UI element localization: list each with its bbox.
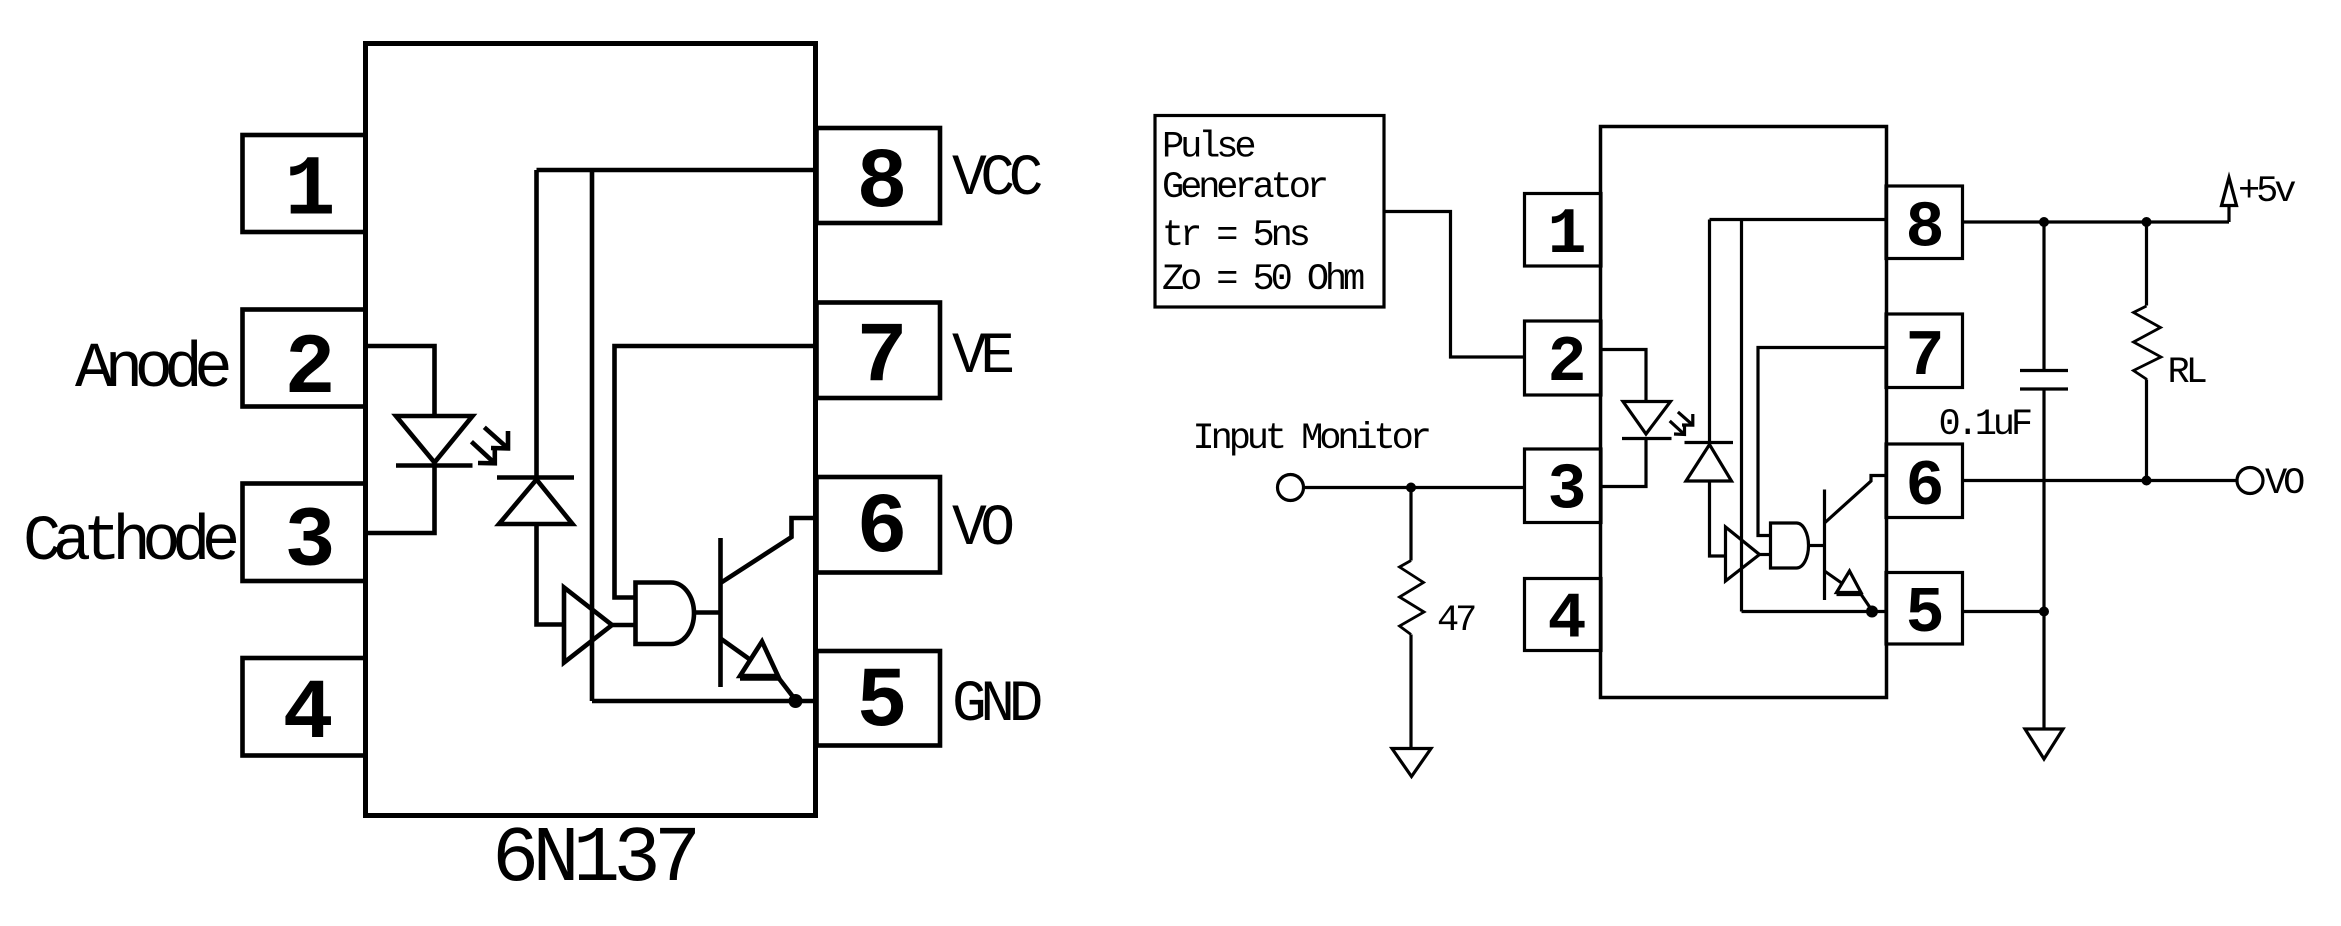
svg-text:RL: RL <box>2168 352 2206 394</box>
svg-text:2: 2 <box>1547 326 1586 400</box>
svg-text:Pulse: Pulse <box>1162 127 1254 169</box>
svg-text:Input Monitor: Input Monitor <box>1193 418 1429 460</box>
svg-text:tr = 5ns: tr = 5ns <box>1162 215 1309 257</box>
svg-text:5: 5 <box>856 654 907 751</box>
svg-text:6N137: 6N137 <box>492 815 695 904</box>
svg-text:4: 4 <box>1547 583 1586 657</box>
svg-text:7: 7 <box>1905 320 1944 394</box>
svg-text:7: 7 <box>856 309 907 406</box>
svg-text:VCC: VCC <box>952 147 1042 212</box>
svg-text:1: 1 <box>284 143 335 240</box>
svg-text:5: 5 <box>1905 577 1944 651</box>
svg-text:Generator: Generator <box>1162 167 1326 209</box>
svg-text:VO: VO <box>952 497 1012 562</box>
svg-text:47: 47 <box>1437 600 1475 642</box>
svg-text:GND: GND <box>952 673 1041 738</box>
svg-text:6: 6 <box>1905 450 1944 524</box>
svg-text:8: 8 <box>856 135 907 232</box>
svg-text:VO: VO <box>2265 463 2304 505</box>
svg-text:3: 3 <box>284 494 335 591</box>
svg-text:+5v: +5v <box>2238 171 2295 213</box>
svg-text:Cathode: Cathode <box>23 507 237 579</box>
svg-text:6: 6 <box>856 480 907 577</box>
svg-text:4: 4 <box>282 666 333 763</box>
svg-text:3: 3 <box>1547 454 1586 528</box>
svg-text:Zo = 50 Ohm: Zo = 50 Ohm <box>1162 259 1364 301</box>
svg-text:8: 8 <box>1905 192 1944 266</box>
svg-text:1: 1 <box>1547 198 1586 272</box>
svg-text:0.1uF: 0.1uF <box>1939 404 2031 446</box>
svg-text:VE: VE <box>952 325 1012 390</box>
svg-text:2: 2 <box>284 321 335 418</box>
svg-text:Anode: Anode <box>75 334 229 406</box>
